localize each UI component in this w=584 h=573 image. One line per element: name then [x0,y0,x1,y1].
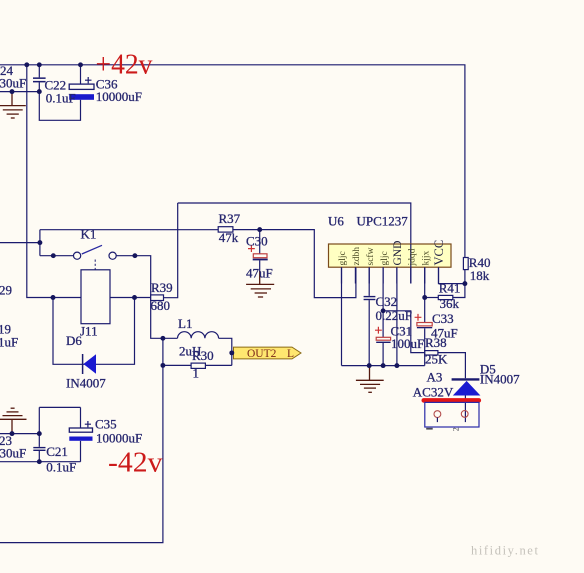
resistor R40 [463,258,468,270]
svg-text:K1: K1 [81,227,97,242]
svg-text:30uF: 30uF [0,76,26,91]
svg-text:AC32V: AC32V [413,385,454,400]
svg-text:10000uF: 10000uF [96,431,142,446]
junction rail/feed [24,62,29,67]
wire C30 bottom lead [259,260,261,272]
wire U6 pin6 over body [410,244,412,267]
junction bus pin3 [367,363,372,368]
svg-text:-42v: -42v [108,448,163,479]
relay K1 contact circle right [109,252,116,259]
junction bus pin5 [394,363,399,368]
resistor R38 [425,351,438,355]
junction C30 top [257,227,262,232]
svg-text:C32: C32 [376,294,398,309]
svg-text:L1: L1 [178,316,192,331]
junction relay row left [51,295,56,300]
svg-text:0.22uF: 0.22uF [376,308,412,323]
wire R39 to U6 pin6 top [178,203,411,284]
svg-text:kjjx: kjjx [422,250,432,265]
wire C30 top lead [259,230,261,254]
wire U6 pin1 to bus [341,267,343,365]
svg-text:R30: R30 [192,348,214,363]
capacitor C21 plates [33,447,45,451]
IC U6 UPC1237 body [329,244,452,267]
junction OUT2 tap [229,350,234,355]
junction R40 bottom [462,281,467,286]
svg-text:1uF: 1uF [0,335,18,350]
diode D5 [452,379,481,395]
svg-text:C30: C30 [246,234,268,249]
wire U6 pin8 to R40 junction [439,267,465,283]
connector A3 box [425,402,479,427]
svg-text:100uF: 100uF [391,336,424,351]
wire switch left [40,255,74,257]
resistor R39 [151,295,164,301]
wire switch right to R39 [116,256,151,298]
wire C35 C21 loop top [39,406,80,408]
wire speaker input from left [0,242,40,244]
svg-text:0.1uF: 0.1uF [46,91,76,106]
svg-text:J11: J11 [80,324,98,339]
connector A3 pin label 1 [426,428,433,430]
wire U6 pin7 leads [424,267,426,365]
AC input bus bar (red) [422,398,482,403]
svg-text:jdqd: jdqd [408,248,418,266]
svg-text:IN4007: IN4007 [66,376,106,391]
junction speaker feed [37,240,42,245]
junction R41 left [422,295,427,300]
capacitor C32 plates [364,296,376,300]
relay K1 lever [82,245,102,254]
junction switch wire right [132,253,137,258]
junction C21 top [37,431,42,436]
wire -42V rail [0,461,81,463]
wire D5 anode down to connector pin 2 [464,396,466,423]
junction switch wire left [51,253,56,258]
svg-text:R37: R37 [219,211,241,226]
svg-text:+42v: +42v [96,50,153,81]
svg-text:gljc: gljc [338,251,348,265]
junction pin4 jog [381,308,386,313]
svg-text:25K: 25K [425,352,448,367]
junction rail/C36 [78,62,83,67]
ground (C24 filter) [0,92,26,118]
wire signal ground bus [342,365,425,367]
svg-text:1: 1 [193,366,200,381]
wire output node down to bottom rail [0,338,163,542]
svg-text:C21: C21 [46,444,68,459]
svg-text:R39: R39 [151,280,173,295]
svg-text:hifidiy.net: hifidiy.net [471,544,540,558]
junction R30 left [160,363,165,368]
wire R37 right to U6 pin2 jog [233,230,356,298]
capacitor C35 polarized plates [69,421,92,441]
svg-text:30uF: 30uF [0,446,26,461]
wire C22 top lead [38,65,40,78]
ground (C23, inverted) [0,408,27,433]
svg-text:A3: A3 [427,370,443,385]
junction C21 bottom [37,459,42,464]
svg-text:680: 680 [151,298,171,313]
relay coil box J11 [81,270,110,324]
svg-text:C35: C35 [95,417,117,432]
ground (U6 bus) [356,366,384,393]
svg-text:29: 29 [0,283,12,298]
svg-text:R41: R41 [439,281,461,296]
wire U6 pin5 to bus [396,267,398,365]
svg-text:scfw: scfw [365,247,376,265]
wire K1 top to R37 [40,229,218,231]
wire U6 pin4 leads [382,267,384,365]
svg-text:C33: C33 [432,311,454,326]
svg-text:R38: R38 [425,335,447,350]
wire node B horizontal [164,203,178,298]
connector A3 pin 2 circle [461,411,468,418]
svg-text:D6: D6 [66,333,82,348]
junction ground tap [10,89,15,94]
svg-text:2: 2 [452,427,461,431]
wire pin4 jog to R38 [383,311,425,353]
svg-text:IN4007: IN4007 [480,372,520,387]
ground (C30) [246,271,274,297]
wire +42V feed down to relay row [27,65,151,298]
svg-text:U6: U6 [328,214,344,229]
svg-text:gljc: gljc [380,251,390,265]
capacitor C33 polarized plates [415,314,433,328]
junction C22 bottom [37,89,42,94]
capacitor C22 plates [33,77,46,82]
relay K1 contact circle left [74,252,81,259]
connector A3 pin 1 circle [434,411,441,418]
inductor L1 [178,332,219,339]
resistor R30 [191,363,205,368]
capacitor C31 polarized plates [375,327,391,343]
wire D6 loop [53,298,135,365]
svg-text:18k: 18k [470,268,490,283]
svg-text:OUT2: OUT2 [247,348,277,360]
connector A3 pin 1 stub [436,418,438,423]
junction bus pin4 [381,363,386,368]
svg-text:L: L [287,348,294,360]
wire C22 bottom lead to C36 bottom [39,82,80,120]
U6 pin stubs [342,267,439,283]
svg-text:GND: GND [392,241,404,266]
wire +42V rail [0,65,465,258]
svg-text:VCC: VCC [432,240,446,266]
wire C24 ground branch [0,91,39,93]
svg-text:47uF: 47uF [246,266,273,281]
wire K1 feed vertical [39,230,41,256]
wire C21 leads [38,407,40,461]
resistor R37 [218,227,233,232]
svg-text:UPC1237: UPC1237 [357,214,409,229]
svg-text:36k: 36k [440,296,460,311]
svg-text:47k: 47k [219,230,239,245]
junction C23 ground tap [10,431,15,436]
relay K1 actuator dashed link [94,260,96,270]
wire R38 right to D5 [438,353,466,379]
wire C23 top branch [0,433,39,435]
wire R39 left down to L1 [151,298,178,339]
diode D6 [83,354,96,374]
wire R40 bottom to R41 [453,270,465,298]
wire U6 pin3 leads [368,267,370,365]
wire C36 top lead [80,65,82,84]
wire C35 leads [80,407,82,461]
capacitor C36 polarized plates [69,77,94,100]
svg-text:0.1uF: 0.1uF [46,460,76,475]
svg-text:zdbh: zdbh [352,247,362,266]
wire R41 left lead [425,297,439,299]
svg-text:10000uF: 10000uF [96,89,142,104]
junction rail/C22 [37,62,42,67]
junction relay row right [132,295,137,300]
capacitor C30 polarized plates [248,245,268,260]
junction L1 left [160,336,165,341]
resistor R41 [438,295,453,299]
connector OUT2 [234,347,302,360]
wire R30 row [163,364,232,366]
wire L1 right down [219,338,232,365]
